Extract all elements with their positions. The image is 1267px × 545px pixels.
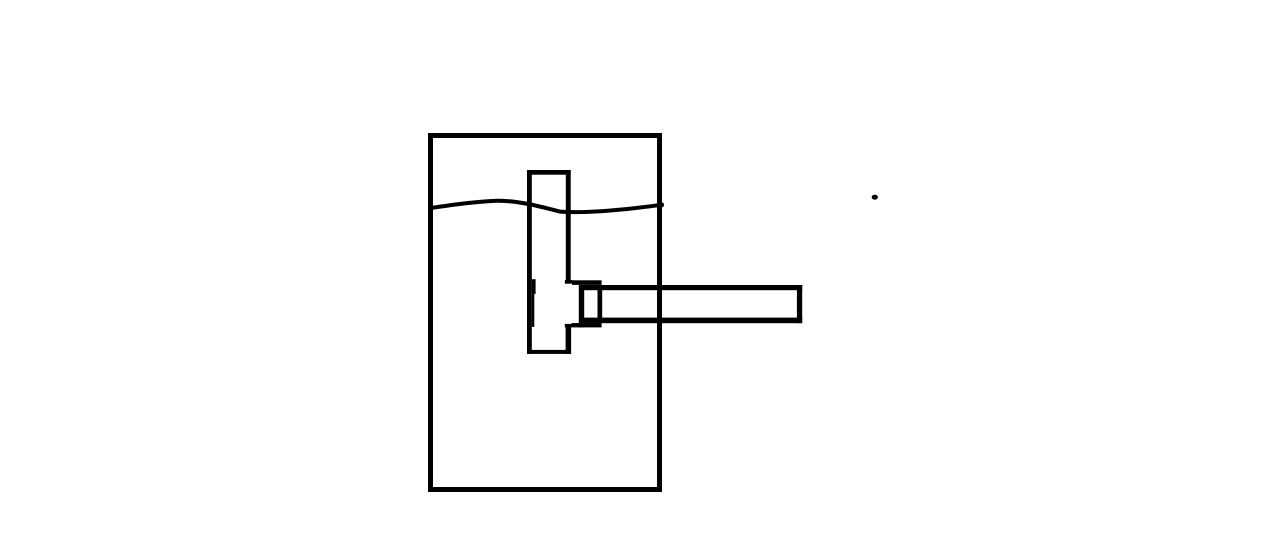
stray dot <box>872 195 878 200</box>
tank outline <box>431 136 660 490</box>
pipe right end cap <box>797 285 802 323</box>
tube to collar step top <box>565 280 573 284</box>
tube left wall <box>527 170 532 354</box>
tube top bar <box>527 170 571 175</box>
pipe bottom wall <box>580 318 802 324</box>
collar top flange <box>572 280 602 285</box>
collar right wall <box>598 285 603 323</box>
tube left wall jog upper <box>532 279 536 294</box>
pipe top wall <box>580 285 802 290</box>
tube bottom bar <box>527 350 571 354</box>
collar bottom flange <box>572 323 602 327</box>
tube right wall lower <box>566 327 572 354</box>
collar left wall <box>579 285 584 328</box>
tube to collar step bottom <box>565 324 572 328</box>
liquid surface wavy line <box>432 201 662 212</box>
tube left wall jog lower <box>532 294 535 327</box>
liquid surface end blob <box>659 202 664 207</box>
tube right wall upper <box>566 170 571 280</box>
